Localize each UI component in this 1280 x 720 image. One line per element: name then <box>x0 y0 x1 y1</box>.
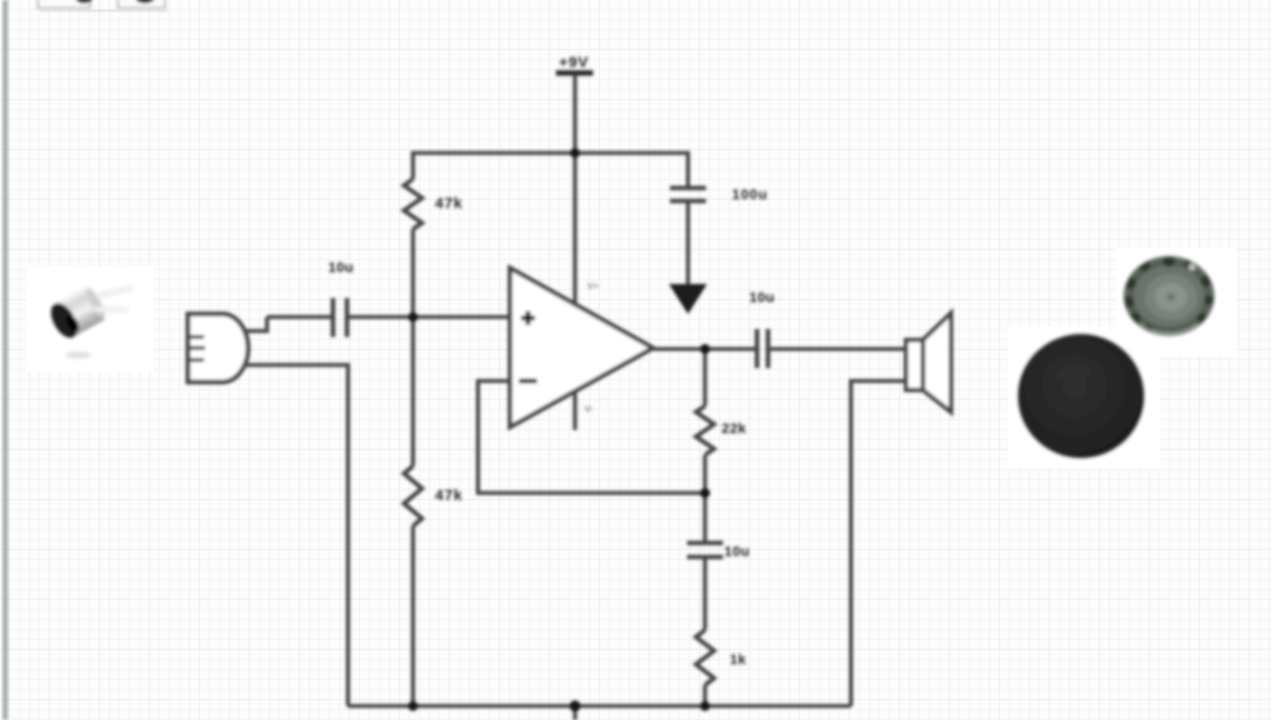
svg-text:+9V: +9V <box>559 54 589 71</box>
speaker back photo <box>1122 255 1215 336</box>
svg-text:22k: 22k <box>722 420 747 436</box>
svg-text:10u: 10u <box>749 289 775 305</box>
power supply bar <box>556 70 593 76</box>
junction node (divider/rail) <box>408 701 418 711</box>
wire: ground stub below rail <box>573 706 577 720</box>
speaker front photo (black disc) <box>1018 334 1144 458</box>
UI: left scrollbar track <box>3 0 9 720</box>
wire: bottom ground rail <box>348 704 851 708</box>
wire: output node down to R3 <box>703 349 707 406</box>
wire: C2 to arrow <box>686 203 690 288</box>
capacitor C2 100u plates <box>670 188 706 201</box>
svg-text:10u: 10u <box>328 259 354 275</box>
junction node (divider/+input) <box>408 312 418 322</box>
junction node (output/R3) <box>700 344 710 354</box>
svg-text:47k: 47k <box>435 195 463 212</box>
UI: toolbar button 1 <box>38 0 92 8</box>
wire: supply to op-amp V+ <box>573 75 577 306</box>
junction node (R4/rail) <box>700 701 710 711</box>
svg-text:100u: 100u <box>732 186 768 202</box>
resistor R4 1k <box>696 630 714 685</box>
wire: feedback to - input <box>478 381 703 493</box>
value labels <box>328 54 775 667</box>
wire: mic to C1 <box>267 315 331 319</box>
UI: toolbar shadow <box>40 10 168 13</box>
speaker SP1 driver <box>906 340 923 390</box>
wire: R3 to C4 <box>703 455 707 543</box>
wire: C1 to op-amp + input <box>349 315 510 319</box>
wire: divider bottom to rail <box>411 526 415 706</box>
wire: mic bottom lead down <box>240 365 348 706</box>
resistor R3 22k <box>696 406 714 455</box>
speaker SP1 cone <box>923 313 951 412</box>
junction node (feedback) <box>700 488 710 498</box>
UI: toolbar button 2 <box>118 0 165 8</box>
wire: speaker return <box>851 381 906 706</box>
wire: R4 to rail <box>703 685 707 706</box>
wire: C4 to R4 <box>703 559 707 630</box>
wire: op-amp output <box>653 347 757 351</box>
photo white backing (mic) <box>26 266 154 372</box>
microphone MIC1 symbol <box>188 314 248 382</box>
wire: mic top lead <box>240 317 267 331</box>
svg-text:10u: 10u <box>724 543 750 559</box>
right margin <box>1271 0 1280 720</box>
junction node (supply/top rail) <box>570 148 580 158</box>
wire: op-amp V- stub <box>573 391 577 430</box>
arrow head (down) <box>669 284 707 314</box>
op-amp - marker <box>519 379 537 384</box>
wire: divider middle <box>411 229 415 466</box>
op-amp U1 <box>510 268 653 427</box>
microphone terminals <box>189 337 205 360</box>
capacitor C1 10u plates <box>333 298 347 337</box>
photo white backing (speaker back) <box>1116 248 1236 356</box>
wire: top rail from divider top to 100u cap <box>413 153 688 186</box>
svg-text:V+: V+ <box>587 281 598 291</box>
resistor R2 47k <box>404 466 422 526</box>
wire: C3 to speaker <box>770 347 906 351</box>
microphone photo <box>45 283 133 358</box>
svg-text:V-: V- <box>585 404 594 414</box>
capacitor C3 10u plates <box>757 329 768 368</box>
capacitor C4 10u plates <box>687 543 723 557</box>
photo white backing (speaker front) <box>1008 326 1160 468</box>
svg-text:47k: 47k <box>435 487 463 504</box>
op-amp + marker <box>521 311 535 325</box>
resistor R1 47k <box>404 179 422 229</box>
junction node (ground stub) <box>570 701 581 712</box>
svg-text:1k: 1k <box>730 651 747 667</box>
